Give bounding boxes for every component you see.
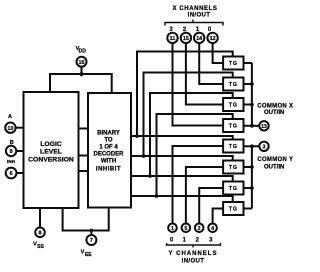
svg-text:IN/OUT: IN/OUT	[182, 258, 205, 264]
svg-text:B: B	[10, 140, 14, 146]
svg-text:0: 0	[170, 237, 174, 243]
svg-text:4: 4	[211, 226, 214, 232]
svg-text:INHIBIT: INHIBIT	[96, 167, 121, 173]
svg-text:TG: TG	[229, 144, 238, 150]
svg-text:IN/OUT: IN/OUT	[188, 12, 211, 18]
svg-text:TG: TG	[229, 186, 238, 192]
svg-text:10: 10	[7, 126, 13, 132]
svg-text:DECODER: DECODER	[93, 152, 124, 158]
svg-text:TG: TG	[229, 165, 238, 171]
svg-text:5: 5	[185, 226, 188, 232]
svg-text:WITH: WITH	[101, 159, 116, 165]
svg-text:SS: SS	[37, 244, 44, 250]
svg-text:16: 16	[79, 60, 85, 66]
svg-text:CONVERSION: CONVERSION	[28, 156, 74, 163]
svg-text:8: 8	[39, 231, 42, 237]
svg-text:TG: TG	[229, 207, 238, 213]
svg-text:COMMON Y: COMMON Y	[257, 157, 293, 163]
svg-text:Y CHANNELS: Y CHANNELS	[169, 251, 218, 257]
svg-text:EE: EE	[85, 252, 92, 258]
svg-text:TG: TG	[229, 82, 238, 88]
svg-text:INH: INH	[7, 159, 16, 164]
svg-text:2: 2	[196, 237, 200, 243]
svg-text:LOGIC: LOGIC	[40, 141, 62, 148]
svg-text:7: 7	[90, 238, 93, 244]
svg-text:1: 1	[171, 226, 174, 232]
svg-text:9: 9	[10, 149, 13, 155]
svg-text:14: 14	[196, 36, 202, 42]
svg-text:11: 11	[170, 36, 176, 42]
svg-text:6: 6	[10, 171, 13, 177]
svg-text:TO: TO	[104, 137, 113, 143]
svg-text:X CHANNELS: X CHANNELS	[172, 6, 217, 12]
svg-text:2: 2	[198, 226, 201, 232]
svg-text:3: 3	[263, 144, 266, 150]
svg-text:COMMON X: COMMON X	[257, 104, 293, 110]
svg-text:1: 1	[183, 237, 187, 243]
svg-text:OUT/IN: OUT/IN	[264, 110, 284, 116]
svg-text:15: 15	[183, 36, 189, 42]
svg-text:A: A	[8, 114, 12, 120]
svg-text:3: 3	[209, 237, 213, 243]
svg-text:BINARY: BINARY	[97, 130, 120, 136]
svg-text:TG: TG	[229, 61, 238, 67]
svg-text:13: 13	[261, 124, 267, 130]
svg-text:OUT/IN: OUT/IN	[264, 165, 284, 171]
svg-text:LEVEL: LEVEL	[40, 149, 62, 156]
svg-text:1 OF 4: 1 OF 4	[99, 145, 118, 151]
svg-text:12: 12	[210, 36, 216, 42]
svg-text:TG: TG	[229, 103, 238, 109]
svg-text:TG: TG	[229, 124, 238, 130]
svg-text:DD: DD	[79, 49, 87, 55]
